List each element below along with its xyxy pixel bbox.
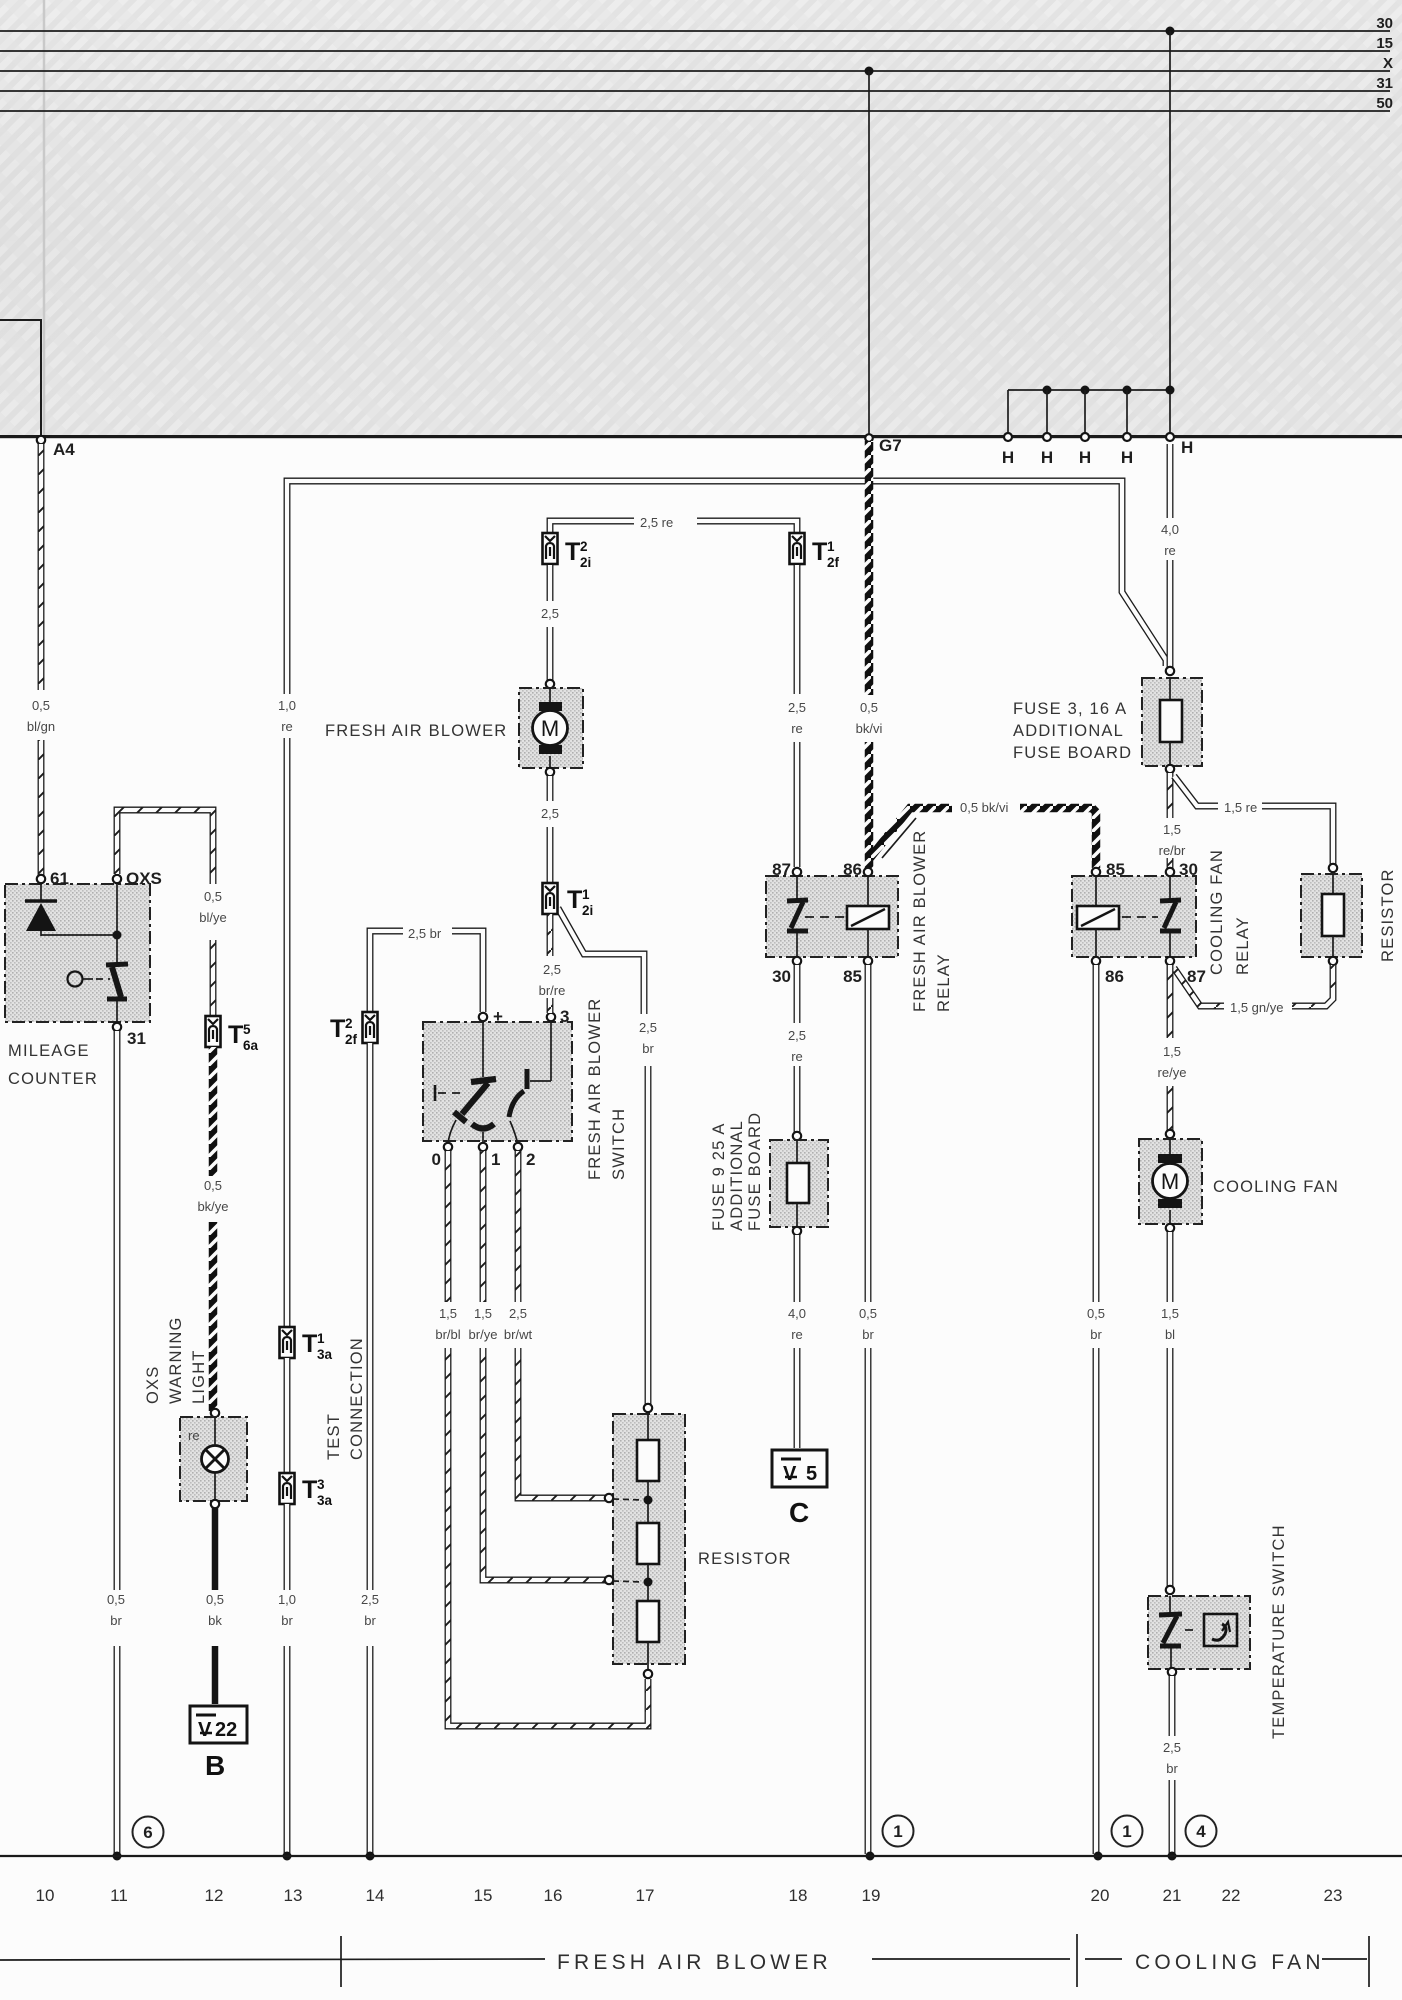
wire 1,5 br/ye <box>480 1151 487 1302</box>
svg-text:50: 50 <box>1376 95 1393 112</box>
terminal 87 <box>793 868 801 876</box>
svg-text:br: br <box>1090 1327 1102 1342</box>
cooling fan motor <box>1166 1130 1174 1138</box>
svg-text:2,5 br: 2,5 br <box>408 926 442 941</box>
connector T6a5 <box>206 1016 221 1047</box>
wire bk/ye striped <box>209 1047 218 1176</box>
bus X <box>0 70 1390 72</box>
scanned paper hatched band <box>0 0 1402 437</box>
svg-text:22: 22 <box>1222 1886 1241 1905</box>
wire 2,5 br <box>1169 1676 1176 1736</box>
svg-text:re: re <box>791 1327 803 1342</box>
svg-text:re: re <box>188 1428 200 1443</box>
ground mark 6 <box>133 1817 164 1848</box>
svg-text:4,0: 4,0 <box>1161 522 1179 537</box>
svg-text:COOLING FAN: COOLING FAN <box>1208 849 1226 975</box>
wire bk <box>212 1508 219 1590</box>
svg-text:bl/gn: bl/gn <box>27 719 55 734</box>
wire 1,5 br/bl <box>445 1151 452 1302</box>
wire 4,0 re from H <box>1167 444 1174 518</box>
wire 31 to ground row <box>114 1031 121 1590</box>
svg-text:0,5: 0,5 <box>859 1306 877 1321</box>
svg-text:1,5 gn/ye: 1,5 gn/ye <box>1230 1000 1284 1015</box>
svg-text:H: H <box>1002 448 1014 467</box>
relay contact <box>1169 876 1171 899</box>
wire 1,0 br to ground row <box>284 1504 291 1590</box>
svg-text:2,5 re: 2,5 re <box>640 515 673 530</box>
wire 1,5 gn/ye <box>1174 968 1224 1006</box>
svg-text:2,5: 2,5 <box>639 1020 657 1035</box>
svg-text:CONNECTION: CONNECTION <box>348 1337 366 1460</box>
resistor (cooling fan) <box>1329 864 1337 872</box>
terminal 30 <box>793 957 801 965</box>
bus 30 <box>0 30 1390 32</box>
svg-text:V: V <box>783 1463 797 1485</box>
svg-text:FUSE BOARD: FUSE BOARD <box>746 1112 764 1231</box>
svg-text:2,5: 2,5 <box>543 962 561 977</box>
resistor R3 <box>637 1601 659 1642</box>
connector T2f1 <box>790 533 805 564</box>
connector T3a3 <box>280 1473 295 1504</box>
svg-text:12: 12 <box>205 1886 224 1905</box>
wire 2,5 br to ground row <box>367 1043 374 1590</box>
svg-text:2,5: 2,5 <box>541 806 559 821</box>
svg-text:1: 1 <box>827 539 835 554</box>
svg-text:3: 3 <box>560 1007 569 1026</box>
svg-text:T: T <box>302 1476 317 1504</box>
ground mark 1 <box>883 1816 914 1847</box>
wire 1,5 re branch to resistor <box>1174 776 1218 806</box>
svg-text:2,5: 2,5 <box>788 700 806 715</box>
svg-text:0,5: 0,5 <box>32 698 50 713</box>
svg-text:0,5: 0,5 <box>860 700 878 715</box>
terminal G7 <box>865 434 873 442</box>
svg-text:FRESH AIR BLOWER: FRESH AIR BLOWER <box>557 1951 832 1974</box>
svg-text:3a: 3a <box>317 1493 333 1508</box>
svg-text:1,5: 1,5 <box>1161 1306 1179 1321</box>
wire 2,5 br jumper <box>370 931 403 1011</box>
terminal 61 <box>37 875 45 883</box>
svg-text:1,5: 1,5 <box>1163 822 1181 837</box>
wire 0,5 bk/vi striped <box>865 441 874 695</box>
wire 4,0 re to C <box>794 1235 801 1302</box>
svg-text:re: re <box>791 1049 803 1064</box>
svg-text:5: 5 <box>243 1022 251 1037</box>
terminal 85 <box>1092 868 1100 876</box>
svg-text:M: M <box>541 716 559 741</box>
mileage counter <box>5 884 150 1022</box>
svg-text:2,5: 2,5 <box>361 1592 379 1607</box>
svg-text:86: 86 <box>843 860 862 879</box>
svg-text:br/re: br/re <box>539 983 566 998</box>
svg-text:H: H <box>1079 448 1091 467</box>
terminal OXS <box>113 875 121 883</box>
terminal + <box>479 1013 487 1021</box>
svg-text:16: 16 <box>544 1886 563 1905</box>
diode <box>40 884 42 902</box>
svg-text:2,5: 2,5 <box>541 606 559 621</box>
svg-text:22: 22 <box>215 1719 237 1741</box>
bus 50 <box>0 110 1390 112</box>
svg-text:2: 2 <box>345 1016 353 1031</box>
svg-text:0,5: 0,5 <box>204 889 222 904</box>
svg-text:2i: 2i <box>582 903 593 918</box>
wire 2,5 br from T2i1 to resistor <box>558 908 644 1014</box>
relay contact <box>796 876 798 899</box>
OXS warning light <box>211 1409 219 1417</box>
svg-text:10: 10 <box>36 1886 55 1905</box>
svg-text:B: B <box>205 1750 225 1781</box>
svg-text:1: 1 <box>893 1822 902 1841</box>
wire from bus 30 to H <box>1166 27 1175 36</box>
svg-text:4,0: 4,0 <box>788 1306 806 1321</box>
svg-text:H: H <box>1181 438 1193 457</box>
svg-text:bl: bl <box>1165 1327 1175 1342</box>
svg-text:6a: 6a <box>243 1038 259 1053</box>
svg-text:H: H <box>1121 448 1133 467</box>
svg-text:1,0: 1,0 <box>278 698 296 713</box>
svg-text:86: 86 <box>1105 967 1124 986</box>
svg-text:31: 31 <box>127 1029 146 1048</box>
terminal 86 <box>1092 957 1100 965</box>
svg-text:17: 17 <box>636 1886 655 1905</box>
svg-text:T: T <box>330 1015 345 1043</box>
svg-text:2f: 2f <box>345 1032 358 1047</box>
svg-text:87: 87 <box>1187 967 1206 986</box>
svg-text:1: 1 <box>1122 1822 1131 1841</box>
section bracket <box>0 1959 545 1960</box>
svg-text:br: br <box>364 1613 376 1628</box>
svg-text:FRESH AIR BLOWER: FRESH AIR BLOWER <box>911 830 929 1012</box>
svg-text:re/br: re/br <box>1159 843 1186 858</box>
wire 1,0 re top feed to fuse 3 <box>287 481 1166 1326</box>
svg-text:br: br <box>862 1327 874 1342</box>
svg-text:br: br <box>1166 1761 1178 1776</box>
svg-text:2i: 2i <box>580 555 591 570</box>
svg-text:0,5: 0,5 <box>1087 1306 1105 1321</box>
svg-text:14: 14 <box>366 1886 385 1905</box>
svg-text:15: 15 <box>474 1886 493 1905</box>
svg-text:bl/ye: bl/ye <box>199 910 226 925</box>
cooling fan relay <box>1072 876 1196 957</box>
svg-text:T: T <box>565 538 580 566</box>
svg-text:ADDITIONAL: ADDITIONAL <box>728 1120 746 1231</box>
svg-text:5: 5 <box>806 1463 817 1485</box>
svg-text:30: 30 <box>772 967 791 986</box>
svg-text:30: 30 <box>1179 860 1198 879</box>
svg-text:3: 3 <box>317 1477 325 1492</box>
wire 2,5 re loop <box>550 521 634 538</box>
fresh air blower switch <box>423 1022 572 1141</box>
wire 2,5 br/re <box>547 914 554 956</box>
svg-text:SWITCH: SWITCH <box>610 1108 628 1180</box>
svg-text:G7: G7 <box>879 436 902 455</box>
svg-text:COUNTER: COUNTER <box>8 1070 98 1088</box>
svg-text:87: 87 <box>772 860 791 879</box>
svg-text:br: br <box>281 1613 293 1628</box>
svg-text:FUSE 3, 16 A: FUSE 3, 16 A <box>1013 700 1127 718</box>
node junction <box>41 934 117 936</box>
svg-text:RELAY: RELAY <box>1234 916 1252 975</box>
svg-text:1,5: 1,5 <box>439 1306 457 1321</box>
terminal 86 <box>864 868 872 876</box>
svg-text:FRESH AIR BLOWER: FRESH AIR BLOWER <box>586 998 604 1180</box>
ground rail <box>0 1855 1402 1857</box>
svg-text:COOLING FAN: COOLING FAN <box>1135 1951 1325 1974</box>
svg-text:30: 30 <box>1376 15 1393 32</box>
terminal H <box>1043 433 1051 441</box>
fuse 3 <box>1166 667 1174 675</box>
fuse 9 <box>793 1132 801 1140</box>
svg-text:TEMPERATURE SWITCH: TEMPERATURE SWITCH <box>1270 1524 1288 1739</box>
svg-text:1,5: 1,5 <box>1163 1044 1181 1059</box>
mileage counter switch <box>106 964 128 965</box>
svg-text:2: 2 <box>526 1150 535 1169</box>
svg-text:OXS: OXS <box>126 869 162 888</box>
connector T2i2 <box>543 533 558 564</box>
svg-text:1,5: 1,5 <box>474 1306 492 1321</box>
svg-text:1: 1 <box>582 887 590 902</box>
H manifold <box>1008 389 1170 391</box>
svg-text:T: T <box>302 1330 317 1358</box>
svg-text:+: + <box>493 1007 503 1026</box>
svg-text:1,0: 1,0 <box>278 1592 296 1607</box>
terminal 0 <box>444 1143 452 1151</box>
terminal 30 <box>1166 868 1174 876</box>
wire 0,5 br from 86 <box>1093 965 1100 1302</box>
svg-text:FUSE 9 25 A: FUSE 9 25 A <box>710 1122 728 1231</box>
plug V5 <box>772 1450 827 1487</box>
svg-text:H: H <box>1041 448 1053 467</box>
wire box outline upper-left <box>0 320 41 437</box>
svg-text:2,5: 2,5 <box>1163 1740 1181 1755</box>
ground mark 4 <box>1186 1816 1217 1847</box>
svg-text:WARNING: WARNING <box>167 1316 185 1404</box>
svg-text:T: T <box>228 1021 243 1049</box>
wire 0,5 bk/vi branch to cooling fan relay <box>882 818 916 858</box>
svg-text:A4: A4 <box>53 440 75 459</box>
svg-text:1: 1 <box>317 1331 325 1346</box>
svg-text:4: 4 <box>1196 1822 1206 1841</box>
svg-text:18: 18 <box>789 1886 808 1905</box>
relay coil <box>1095 876 1097 906</box>
svg-text:20: 20 <box>1091 1886 1110 1905</box>
svg-text:1,5 re: 1,5 re <box>1224 800 1257 815</box>
wire OXS loop bl/ye <box>117 810 213 884</box>
svg-text:RESISTOR: RESISTOR <box>1379 868 1397 962</box>
svg-text:0,5: 0,5 <box>204 1178 222 1193</box>
svg-text:0: 0 <box>432 1150 441 1169</box>
svg-text:RESISTOR: RESISTOR <box>698 1550 792 1568</box>
wire 2,5 br/wt <box>515 1151 522 1302</box>
svg-text:ADDITIONAL: ADDITIONAL <box>1013 722 1124 740</box>
svg-text:TEST: TEST <box>325 1413 343 1460</box>
ground mark 1 <box>1112 1816 1143 1847</box>
svg-text:br/bl: br/bl <box>435 1327 460 1342</box>
connector T3a1 <box>280 1327 295 1358</box>
plug V22 <box>190 1706 247 1743</box>
svg-text:br: br <box>110 1613 122 1628</box>
wire T3a1-T3a3 <box>284 1358 291 1472</box>
wire 0,5 br to ground row <box>865 965 872 1302</box>
svg-text:2f: 2f <box>827 555 840 570</box>
terminal 31 <box>113 1023 121 1031</box>
connector T2f2 <box>363 1012 378 1043</box>
svg-text:1: 1 <box>491 1150 500 1169</box>
resistor R1 <box>637 1440 659 1481</box>
svg-text:85: 85 <box>1106 860 1125 879</box>
fresh air blower relay <box>766 876 898 957</box>
svg-text:19: 19 <box>862 1886 881 1905</box>
svg-text:0,5: 0,5 <box>107 1592 125 1607</box>
svg-text:2,5: 2,5 <box>509 1306 527 1321</box>
svg-text:3a: 3a <box>317 1347 333 1362</box>
svg-text:T: T <box>812 538 827 566</box>
svg-text:21: 21 <box>1163 1886 1182 1905</box>
svg-text:RELAY: RELAY <box>935 953 953 1012</box>
svg-text:13: 13 <box>284 1886 303 1905</box>
svg-text:br/wt: br/wt <box>504 1327 533 1342</box>
svg-text:V: V <box>198 1719 212 1741</box>
svg-text:2: 2 <box>580 539 588 554</box>
svg-text:15: 15 <box>1376 35 1393 52</box>
svg-text:FRESH AIR BLOWER: FRESH AIR BLOWER <box>325 722 507 740</box>
svg-text:61: 61 <box>50 869 69 888</box>
wire 2,5 re to fuse 9 <box>794 965 801 1023</box>
svg-text:0,5 bk/vi: 0,5 bk/vi <box>960 800 1009 815</box>
terminal 2 <box>514 1143 522 1151</box>
svg-text:bk: bk <box>208 1613 222 1628</box>
svg-text:2,5: 2,5 <box>788 1028 806 1043</box>
svg-text:X: X <box>1383 55 1393 72</box>
svg-text:85: 85 <box>843 967 862 986</box>
svg-text:11: 11 <box>110 1886 128 1905</box>
connector T2i1 <box>543 883 558 914</box>
relay coil <box>805 916 844 918</box>
svg-text:FUSE BOARD: FUSE BOARD <box>1013 744 1132 762</box>
svg-text:bk/ye: bk/ye <box>197 1199 228 1214</box>
svg-text:re: re <box>791 721 803 736</box>
temperature switch <box>1166 1586 1174 1594</box>
svg-text:br: br <box>642 1041 654 1056</box>
terminal H <box>1081 433 1089 441</box>
svg-text:C: C <box>789 1497 809 1528</box>
switch internals <box>482 1021 484 1077</box>
svg-text:T: T <box>567 886 582 914</box>
terminal A4 <box>37 436 45 444</box>
resistor (blower) <box>644 1404 652 1412</box>
svg-text:31: 31 <box>1376 75 1393 92</box>
svg-text:re: re <box>1164 543 1176 558</box>
svg-text:LIGHT: LIGHT <box>190 1349 208 1404</box>
svg-text:bk/vi: bk/vi <box>856 721 883 736</box>
svg-text:br/ye: br/ye <box>469 1327 498 1342</box>
wire A4 bl/gn <box>38 444 45 690</box>
wire 2,5 below motor <box>547 776 554 801</box>
terminal H main <box>1166 433 1174 441</box>
wire from bus X to G7 <box>865 67 874 76</box>
svg-text:OXS: OXS <box>144 1366 162 1404</box>
terminal 3 <box>547 1013 555 1021</box>
terminal H <box>1004 433 1012 441</box>
wire 1,5 re/br <box>1167 773 1174 818</box>
wire 1,5 bl <box>1167 1232 1174 1302</box>
wire 2,5 <box>547 565 554 601</box>
bus 31 <box>0 90 1390 92</box>
svg-text:0,5: 0,5 <box>206 1592 224 1607</box>
svg-text:M: M <box>1161 1169 1179 1194</box>
resistor R2 <box>637 1523 659 1564</box>
wire 2,5 re to relay 87 <box>794 565 801 694</box>
terminal 1 <box>479 1143 487 1151</box>
svg-text:23: 23 <box>1324 1886 1343 1905</box>
svg-text:MILEAGE: MILEAGE <box>8 1042 90 1060</box>
terminal 87 <box>1166 957 1174 965</box>
terminal H <box>1123 433 1131 441</box>
svg-text:COOLING FAN: COOLING FAN <box>1213 1178 1339 1196</box>
svg-text:re/ye: re/ye <box>1158 1065 1187 1080</box>
wire 1,5 re/ye from 87 <box>1167 965 1174 1038</box>
svg-text:re: re <box>281 719 293 734</box>
bus 15 <box>0 50 1390 52</box>
terminal 85 <box>864 957 872 965</box>
svg-text:6: 6 <box>143 1823 152 1842</box>
